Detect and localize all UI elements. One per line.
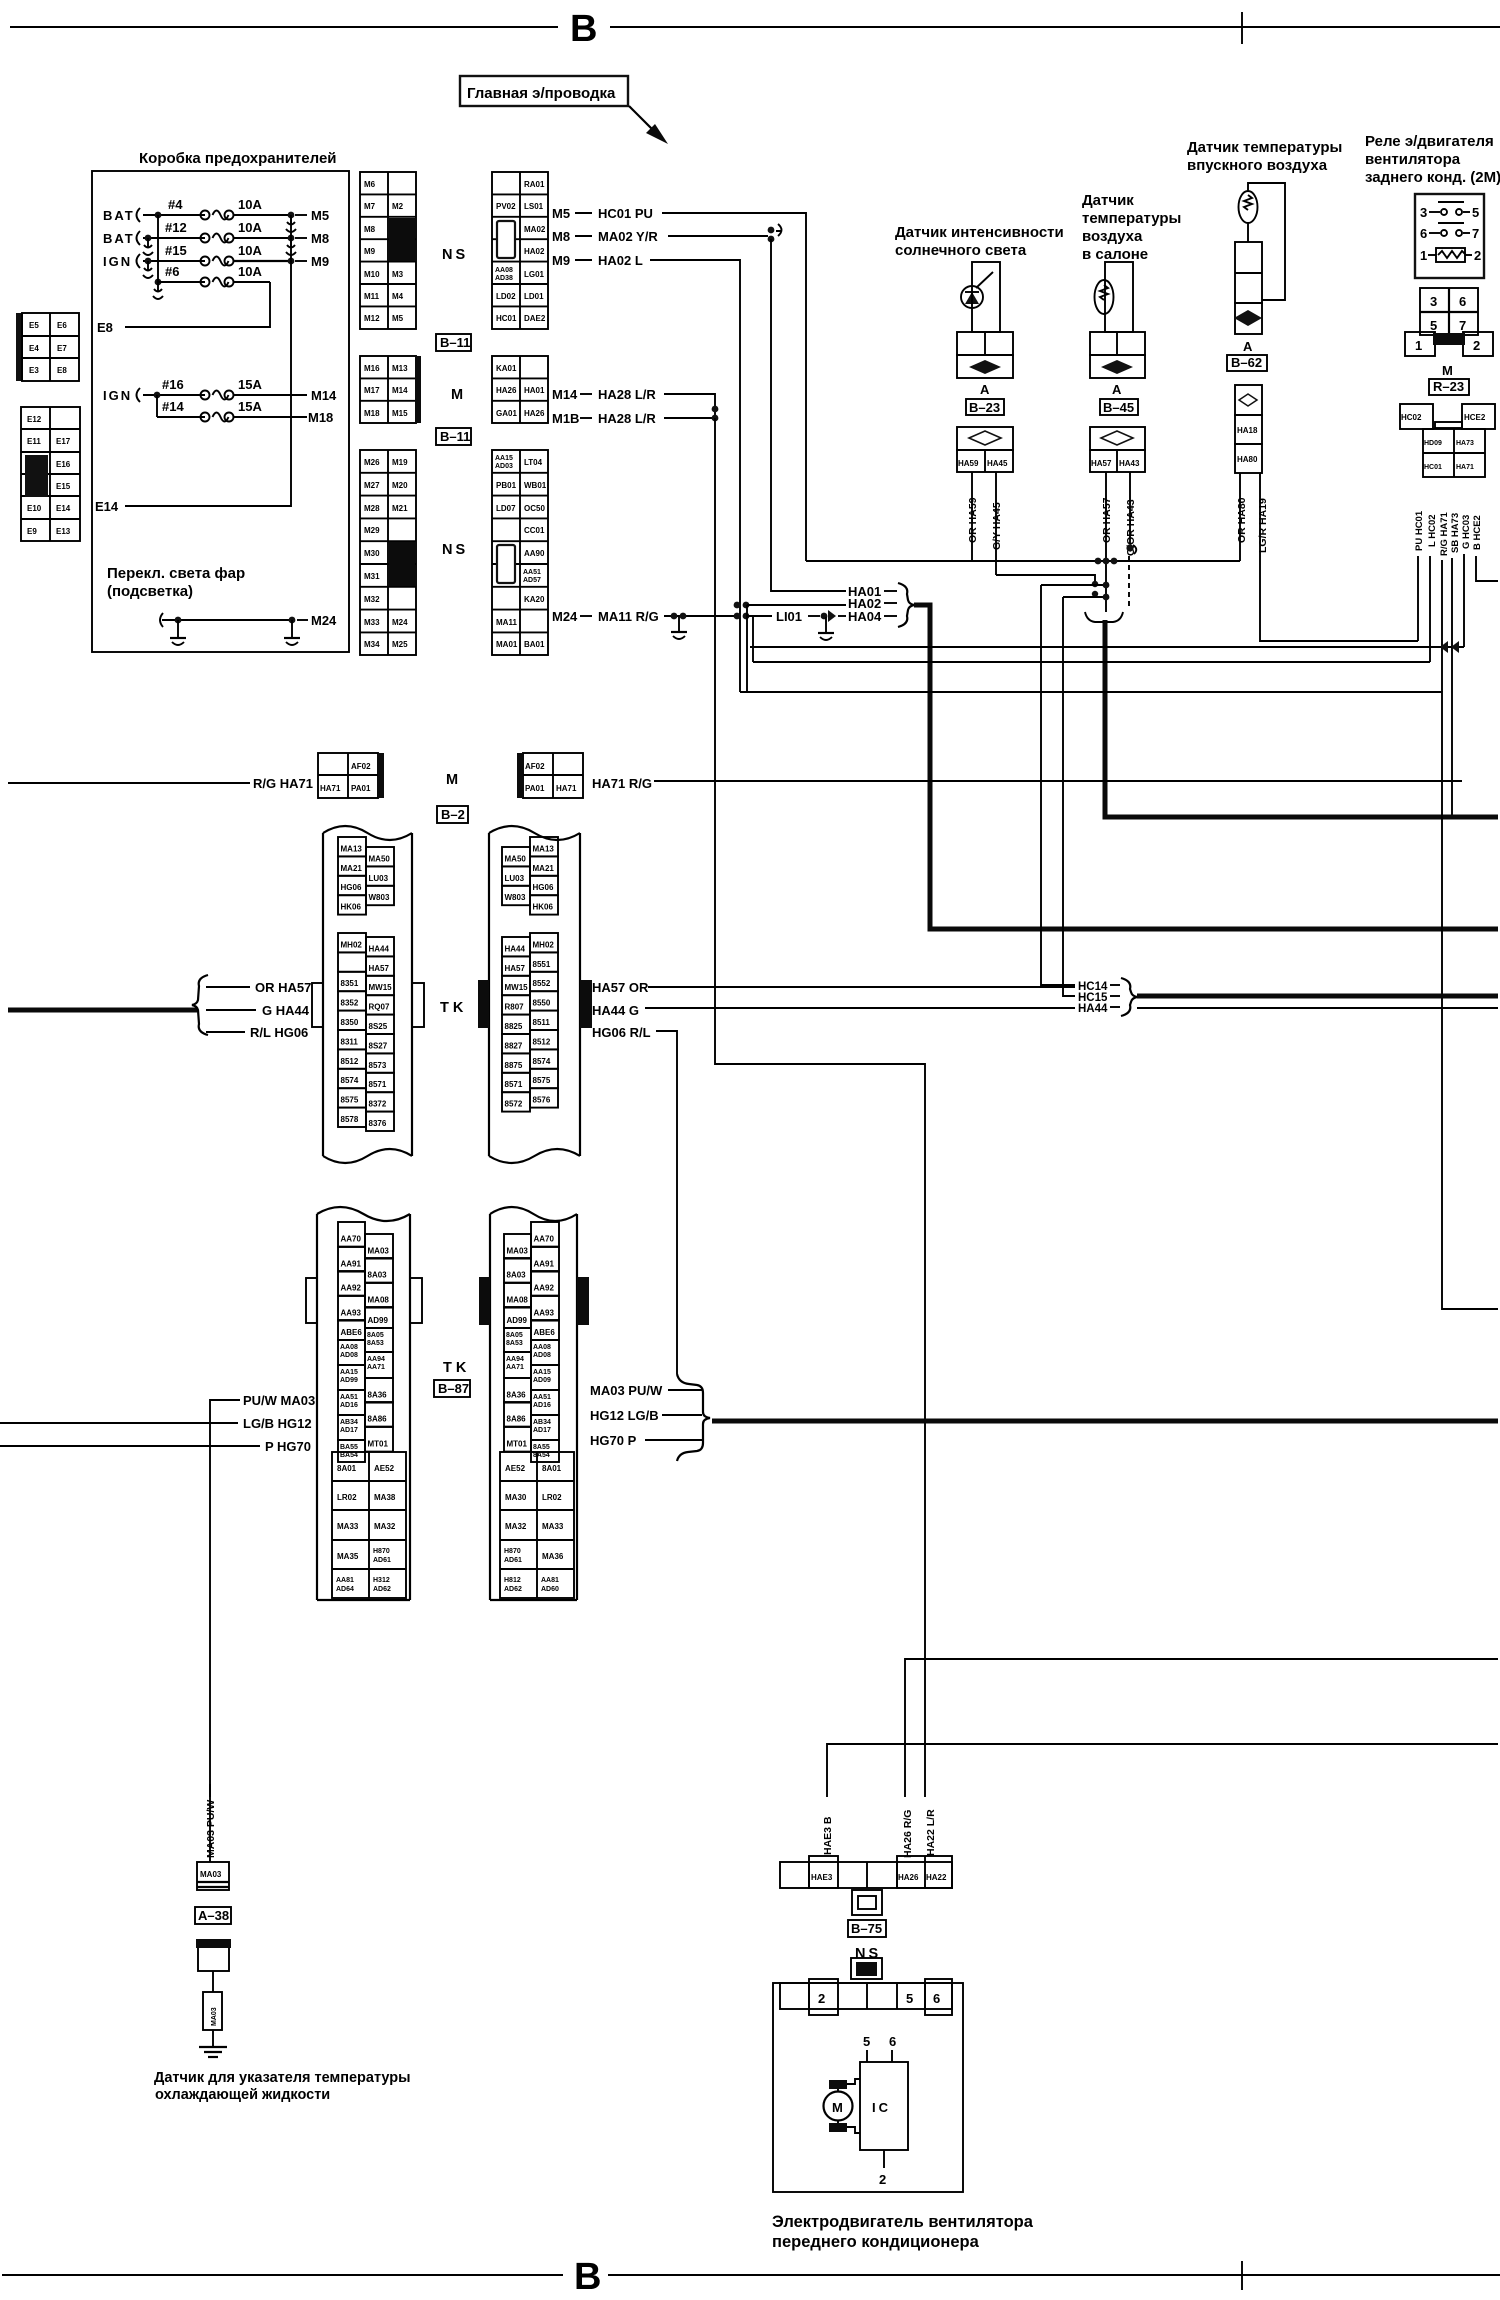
svg-text:2: 2 <box>879 2172 886 2187</box>
svg-text:E12: E12 <box>27 415 42 424</box>
relay wire label B HCE2 <box>1472 515 1483 550</box>
svg-text:8352: 8352 <box>341 999 359 1008</box>
svg-text:HA59: HA59 <box>958 459 979 468</box>
connector block M6-M12 <box>360 172 416 329</box>
svg-text:M33: M33 <box>364 618 380 627</box>
svg-text:8573: 8573 <box>369 1061 387 1070</box>
fan motor box <box>773 1983 963 2192</box>
frame top letter B <box>570 8 597 50</box>
svg-text:HA71 R/G: HA71 R/G <box>592 776 652 791</box>
thick harness wire from bundle down and right <box>1105 620 1498 817</box>
svg-text:AE52: AE52 <box>505 1464 526 1473</box>
svg-text:BA55: BA55 <box>340 1444 358 1451</box>
svg-text:R/G HA71: R/G HA71 <box>253 776 313 791</box>
cabin sensor thermistor bulb <box>1095 280 1114 314</box>
svg-text:Перекл. света фар: Перекл. света фар <box>107 565 245 582</box>
svg-text:8571: 8571 <box>369 1080 387 1089</box>
svg-text:AD16: AD16 <box>340 1402 358 1409</box>
svg-text:AA51: AA51 <box>533 1394 551 1401</box>
svg-text:AF02: AF02 <box>525 762 545 771</box>
label NS lower <box>442 542 468 558</box>
svg-text:LG01: LG01 <box>524 270 545 279</box>
relay wire label L HC02 <box>1427 514 1438 547</box>
svg-text:#16: #16 <box>162 377 184 392</box>
svg-text:AD62: AD62 <box>373 1586 391 1593</box>
svg-text:H870: H870 <box>504 1548 521 1555</box>
svg-text:MW15: MW15 <box>505 983 529 992</box>
label A (sun) <box>980 382 990 397</box>
sun sensor harness connector HA59 HA45 <box>957 427 1013 472</box>
svg-text:MA03: MA03 <box>507 1247 529 1256</box>
relay harness connector HD09/HA73 and HC01/HA71 <box>1423 429 1485 477</box>
intake air temperature sensor caption <box>1187 139 1342 174</box>
intake sensor thermistor bulb <box>1239 191 1258 223</box>
svg-text:E15: E15 <box>56 482 71 491</box>
svg-text:AA08: AA08 <box>340 1344 358 1351</box>
relay wire label SB HA73 <box>1450 513 1461 553</box>
svg-text:8551: 8551 <box>533 960 551 969</box>
svg-text:G HA44: G HA44 <box>262 1003 310 1018</box>
svg-text:AD09: AD09 <box>533 1377 551 1384</box>
svg-text:E4: E4 <box>29 344 39 353</box>
svg-text:B–11: B–11 <box>440 335 470 350</box>
svg-text:A–38: A–38 <box>198 1908 229 1923</box>
svg-text:PU HC01: PU HC01 <box>1414 510 1425 551</box>
cabin harness connector HA57 HA43 <box>1090 427 1145 472</box>
svg-text:M4: M4 <box>392 292 404 301</box>
svg-text:H812: H812 <box>504 1577 521 1584</box>
svg-text:Датчик интенсивности: Датчик интенсивности <box>895 224 1064 241</box>
svg-text:M18: M18 <box>308 410 333 425</box>
wire HAE3 B horizontal y1744 <box>827 1744 1498 1797</box>
svg-text:HAE3 B: HAE3 B <box>822 1816 834 1855</box>
svg-text:AB34: AB34 <box>533 1419 551 1426</box>
connector block RA01 column <box>492 172 548 329</box>
svg-text:M26: M26 <box>364 458 380 467</box>
bus wire HA71 R/G y781 <box>654 780 1462 782</box>
svg-text:AA93: AA93 <box>341 1309 362 1318</box>
intake harness connector HA18 HA80 <box>1235 385 1262 473</box>
svg-text:E16: E16 <box>56 460 71 469</box>
svg-text:PV02: PV02 <box>496 202 516 211</box>
svg-text:8A05: 8A05 <box>506 1332 523 1339</box>
svg-text:M34: M34 <box>364 640 380 649</box>
svg-text:MA03 PU/W: MA03 PU/W <box>205 1800 217 1858</box>
svg-text:HA43: HA43 <box>1119 459 1140 468</box>
svg-text:6: 6 <box>1459 294 1466 309</box>
svg-text:воздуха: воздуха <box>1082 228 1143 245</box>
svg-text:AA81: AA81 <box>541 1577 559 1584</box>
svg-text:вентилятора: вентилятора <box>1365 151 1461 168</box>
svg-text:8376: 8376 <box>369 1119 387 1128</box>
svg-text:1: 1 <box>1420 248 1427 263</box>
svg-text:MA50: MA50 <box>505 854 527 863</box>
svg-text:8575: 8575 <box>533 1076 551 1085</box>
svg-text:HA28 L/R: HA28 L/R <box>598 387 656 402</box>
svg-text:AD61: AD61 <box>504 1557 522 1564</box>
fuse #15 10A row IGN <box>103 243 329 278</box>
svg-text:HAE3: HAE3 <box>811 1873 833 1882</box>
svg-text:переднего кондиционера: переднего кондиционера <box>772 2233 980 2251</box>
svg-text:PB01: PB01 <box>496 481 517 490</box>
svg-text:E9: E9 <box>27 527 37 536</box>
svg-text:AA70: AA70 <box>341 1235 362 1244</box>
svg-text:6: 6 <box>1420 226 1427 241</box>
svg-text:8825: 8825 <box>505 1022 523 1031</box>
svg-text:DAE2: DAE2 <box>524 314 546 323</box>
svg-text:B: B <box>570 8 597 50</box>
svg-text:3: 3 <box>1420 205 1427 220</box>
svg-text:8576: 8576 <box>533 1096 551 1105</box>
svg-text:10A: 10A <box>238 220 262 235</box>
fuse #4 10A row BAT <box>103 197 329 232</box>
svg-text:M16: M16 <box>364 364 380 373</box>
connector grid E9-E17 <box>21 407 80 541</box>
svg-text:8A86: 8A86 <box>368 1415 388 1424</box>
svg-text:HA44: HA44 <box>1078 1003 1108 1015</box>
svg-text:#15: #15 <box>165 243 187 258</box>
svg-text:Коробка предохранителей: Коробка предохранителей <box>139 150 337 167</box>
svg-text:M24: M24 <box>392 618 408 627</box>
reference box R-23 <box>1429 379 1469 395</box>
svg-text:LD01: LD01 <box>524 292 544 301</box>
svg-text:HG12 LG/B: HG12 LG/B <box>590 1408 659 1423</box>
svg-text:M25: M25 <box>392 640 408 649</box>
left lower wire P HG70 <box>0 1439 311 1454</box>
sun intensity sensor caption <box>895 224 1064 259</box>
svg-text:OC50: OC50 <box>524 504 545 513</box>
svg-text:10A: 10A <box>238 243 262 258</box>
svg-text:8351: 8351 <box>341 979 359 988</box>
sun sensor connector A <box>957 332 1013 378</box>
svg-text:HA26 R/G: HA26 R/G <box>902 1810 914 1858</box>
intake wire OR down <box>1239 473 1241 561</box>
svg-text:AA81: AA81 <box>336 1577 354 1584</box>
svg-text:E6: E6 <box>57 321 67 330</box>
svg-text:8S25: 8S25 <box>369 1022 388 1031</box>
cabin sensor connector A <box>1090 332 1145 378</box>
fan black key box <box>851 1958 882 1979</box>
svg-text:AD60: AD60 <box>541 1586 559 1593</box>
sun sensor wires to connector <box>972 262 1000 332</box>
svg-text:H312: H312 <box>373 1577 390 1584</box>
svg-text:8A01: 8A01 <box>337 1464 357 1473</box>
relay wire L down <box>1429 556 1431 662</box>
AF02 connector left <box>318 753 384 798</box>
svg-text:#12: #12 <box>165 220 187 235</box>
svg-text:W803: W803 <box>369 893 390 902</box>
svg-text:5: 5 <box>906 1991 913 2006</box>
svg-text:M30: M30 <box>364 549 380 558</box>
svg-text:LD02: LD02 <box>496 292 516 301</box>
svg-text:L HC02: L HC02 <box>1427 514 1438 547</box>
fan connector strip <box>780 1856 952 1888</box>
reference box B-23 <box>966 399 1004 415</box>
svg-text:7: 7 <box>1459 318 1466 333</box>
svg-text:M18: M18 <box>364 409 380 418</box>
svg-text:LR02: LR02 <box>542 1493 562 1502</box>
frame bottom rule left segment <box>2 2274 563 2276</box>
svg-text:8A53: 8A53 <box>367 1340 384 1347</box>
svg-text:MA03: MA03 <box>200 1870 222 1879</box>
svg-text:M2: M2 <box>392 202 404 211</box>
svg-text:BAT: BAT <box>103 208 135 223</box>
svg-text:LU03: LU03 <box>505 874 525 883</box>
svg-text:2: 2 <box>1474 248 1481 263</box>
connector block AA15 column <box>492 450 548 655</box>
svg-text:MA02: MA02 <box>524 225 546 234</box>
svg-text:MA30: MA30 <box>505 1493 527 1502</box>
svg-text:MA03: MA03 <box>368 1247 390 1256</box>
svg-text:HA73: HA73 <box>1456 440 1474 447</box>
svg-text:8S27: 8S27 <box>369 1041 388 1050</box>
wire from fuse 6 down to E8 <box>125 282 270 327</box>
wire M9 to HA02 L <box>552 253 740 692</box>
cabin sensor wires <box>1105 262 1133 332</box>
relay wire R/G down <box>1441 560 1443 692</box>
svg-text:AA08: AA08 <box>533 1344 551 1351</box>
reference box B-45 <box>1100 399 1138 415</box>
svg-text:PU/W MA03: PU/W MA03 <box>243 1393 315 1408</box>
svg-text:8A53: 8A53 <box>506 1340 523 1347</box>
svg-text:MT01: MT01 <box>507 1440 528 1449</box>
reference box A-38 <box>195 1907 231 1924</box>
wire stub x753 <box>752 616 754 662</box>
svg-text:AA70: AA70 <box>534 1235 555 1244</box>
intake sensor loop wire <box>1248 183 1285 300</box>
wire R/G HA71 into left AF02 <box>8 776 313 791</box>
svg-text:OR HA80: OR HA80 <box>1236 497 1248 543</box>
relay wire PU down <box>1417 556 1419 641</box>
coolant sensor caption <box>154 2070 411 2103</box>
svg-text:8A05: 8A05 <box>367 1332 384 1339</box>
svg-text:AA15: AA15 <box>495 455 513 462</box>
svg-text:HK06: HK06 <box>533 903 554 912</box>
svg-text:температуры: температуры <box>1082 210 1181 227</box>
bus wire y692 with corner down at 1442 <box>740 692 1498 1309</box>
thick combined wire y998 <box>1137 994 1498 999</box>
svg-text:1: 1 <box>1415 338 1422 353</box>
svg-text:M: M <box>446 772 458 788</box>
fan wire label HA22 L/R <box>925 1809 937 1856</box>
svg-text:M1B: M1B <box>552 411 579 426</box>
svg-text:M28: M28 <box>364 504 380 513</box>
svg-text:B–23: B–23 <box>969 400 1000 415</box>
label TK lower <box>443 1360 470 1376</box>
svg-text:#14: #14 <box>162 399 184 414</box>
svg-text:M17: M17 <box>364 386 380 395</box>
fan motor IC block <box>860 2062 908 2150</box>
svg-text:MA33: MA33 <box>337 1522 359 1531</box>
svg-text:M11: M11 <box>364 292 380 301</box>
svg-text:M21: M21 <box>392 504 408 513</box>
svg-text:AD62: AD62 <box>504 1586 522 1593</box>
svg-text:HA04: HA04 <box>848 609 882 624</box>
svg-text:B–11: B–11 <box>440 429 470 444</box>
relay wire label PU HC01 <box>1414 510 1425 551</box>
svg-text:AA92: AA92 <box>534 1284 555 1293</box>
svg-text:HC01 PU: HC01 PU <box>598 206 653 221</box>
svg-text:охлаждающей жидкости: охлаждающей жидкости <box>155 2087 330 2103</box>
svg-text:AA91: AA91 <box>534 1260 555 1269</box>
svg-text:M32: M32 <box>364 595 380 604</box>
wire color label G/Y HA45 <box>991 502 1003 550</box>
wire M18 to HA28 L/R <box>552 406 718 426</box>
svg-text:M10: M10 <box>364 270 380 279</box>
svg-text:8512: 8512 <box>533 1037 551 1046</box>
relay wire SB down <box>1451 558 1453 817</box>
left lower wire PU/W MA03 corner <box>210 1393 315 1797</box>
svg-text:5: 5 <box>1472 205 1479 220</box>
svg-text:8A01: 8A01 <box>542 1464 562 1473</box>
svg-text:HC01: HC01 <box>496 314 517 323</box>
reference box B-87 <box>434 1380 470 1397</box>
relay R-23 box with contacts <box>1415 194 1484 278</box>
node E14 label <box>95 499 119 514</box>
svg-text:M14: M14 <box>392 386 408 395</box>
svg-text:A: A <box>1243 339 1253 354</box>
relay wire G down <box>1463 554 1465 647</box>
cabin air temperature sensor caption <box>1082 192 1181 263</box>
svg-text:BAT: BAT <box>103 231 135 246</box>
wire HC15 tap y597 <box>1063 594 1109 601</box>
label A (cabin) <box>1112 382 1122 397</box>
svg-text:8578: 8578 <box>341 1115 359 1124</box>
svg-text:HA45: HA45 <box>987 459 1008 468</box>
svg-text:HG06: HG06 <box>341 883 362 892</box>
svg-text:WB01: WB01 <box>524 481 547 490</box>
svg-text:M12: M12 <box>364 314 380 323</box>
svg-text:A: A <box>980 382 990 397</box>
svg-text:AA93: AA93 <box>534 1309 555 1318</box>
bus wire y647 <box>750 641 1464 653</box>
svg-text:R807: R807 <box>505 1003 525 1012</box>
svg-text:MA50: MA50 <box>369 854 391 863</box>
svg-text:E5: E5 <box>29 321 39 330</box>
svg-text:H870: H870 <box>373 1548 390 1555</box>
svg-text:E8: E8 <box>97 320 113 335</box>
svg-text:8827: 8827 <box>505 1041 523 1050</box>
svg-text:Главная э/проводка: Главная э/проводка <box>467 85 616 102</box>
wire M9 junction vertical down to E14 <box>125 215 291 506</box>
svg-text:MH02: MH02 <box>341 940 363 949</box>
fan motor pin strip <box>780 1979 952 2015</box>
frame bottom tick mark <box>1241 2261 1243 2290</box>
relay wire label G HC03 <box>1461 515 1472 549</box>
svg-text:заднего конд. (2M): заднего конд. (2M) <box>1365 169 1500 186</box>
svg-text:солнечного света: солнечного света <box>895 242 1027 259</box>
svg-text:ABE6: ABE6 <box>534 1328 556 1337</box>
fuse #6 10A row <box>153 264 270 299</box>
svg-text:HG70 P: HG70 P <box>590 1433 637 1448</box>
fan wire label HA26 R/G <box>902 1810 914 1858</box>
svg-text:AA71: AA71 <box>367 1364 385 1371</box>
svg-text:R/G HA71: R/G HA71 <box>1439 511 1450 556</box>
svg-text:G/Y HA45: G/Y HA45 <box>991 502 1003 550</box>
svg-text:8574: 8574 <box>341 1076 359 1085</box>
svg-text:HA71: HA71 <box>320 784 341 793</box>
svg-text:NS: NS <box>855 1946 881 1962</box>
svg-text:10A: 10A <box>238 264 262 279</box>
connector block KA01 column <box>492 356 548 423</box>
relay harness connector HC02/HCE2 <box>1400 404 1495 429</box>
svg-text:E14: E14 <box>95 499 119 514</box>
connector grid E5-E8 <box>16 313 79 381</box>
svg-text:IGN: IGN <box>103 254 132 269</box>
reference box B-2 <box>437 806 468 823</box>
svg-text:MA21: MA21 <box>341 864 363 873</box>
fan motor caption <box>772 2213 1034 2251</box>
svg-text:AB34: AB34 <box>340 1419 358 1426</box>
svg-text:Реле э/двигателя: Реле э/двигателя <box>1365 133 1494 150</box>
svg-text:E17: E17 <box>56 437 71 446</box>
svg-text:8A55: 8A55 <box>533 1444 550 1451</box>
svg-text:MA03: MA03 <box>211 2007 218 2026</box>
svg-text:5: 5 <box>863 2034 870 2049</box>
wire HC15 vertical <box>1063 597 1075 996</box>
svg-text:M: M <box>451 387 463 403</box>
svg-text:8A86: 8A86 <box>507 1415 527 1424</box>
svg-text:Электродвигатель вентилятора: Электродвигатель вентилятора <box>772 2213 1034 2231</box>
svg-text:HA26: HA26 <box>496 386 517 395</box>
svg-text:HA80: HA80 <box>1237 455 1258 464</box>
svg-text:5: 5 <box>1430 318 1437 333</box>
svg-text:TK: TK <box>440 1000 467 1016</box>
fuse #12 10A row BAT <box>103 220 329 255</box>
svg-text:M9: M9 <box>552 253 570 268</box>
svg-text:M31: M31 <box>364 572 380 581</box>
thin bus y1007 HA44 G <box>645 1007 1498 1009</box>
svg-text:AD03: AD03 <box>495 463 513 470</box>
svg-text:HA44: HA44 <box>369 944 390 953</box>
svg-text:MA36: MA36 <box>542 1552 564 1561</box>
svg-text:A: A <box>1112 382 1122 397</box>
sun sensor photodiode symbol <box>961 272 993 308</box>
svg-text:M29: M29 <box>364 526 380 535</box>
svg-text:LS01: LS01 <box>524 202 544 211</box>
frame top rule right segment <box>610 26 1500 28</box>
svg-text:HCE2: HCE2 <box>1464 413 1486 422</box>
svg-text:AD17: AD17 <box>340 1427 358 1434</box>
svg-text:M9: M9 <box>311 254 329 269</box>
svg-text:M9: M9 <box>364 247 376 256</box>
relay wire B down <box>1476 556 1498 581</box>
svg-text:AA92: AA92 <box>341 1284 362 1293</box>
svg-text:MA38: MA38 <box>374 1493 396 1502</box>
svg-text:M3: M3 <box>392 270 404 279</box>
svg-text:HA57: HA57 <box>1091 459 1112 468</box>
node E8 label <box>97 320 113 335</box>
svg-text:AD57: AD57 <box>523 577 541 584</box>
svg-text:R–23: R–23 <box>1433 379 1464 394</box>
label M between AF02 <box>446 772 458 788</box>
thick harness wire from HA brace <box>914 605 1498 929</box>
left thick feeder G HA44 <box>8 1008 197 1013</box>
svg-text:E3: E3 <box>29 366 39 375</box>
svg-text:Датчик для указателя температу: Датчик для указателя температуры <box>154 2070 411 2086</box>
thin bus y987 HA57 OR <box>648 986 1075 988</box>
svg-text:OR HA57: OR HA57 <box>1101 497 1113 543</box>
svg-text:MA33: MA33 <box>542 1522 564 1531</box>
svg-text:HA22: HA22 <box>926 1873 947 1882</box>
svg-text:LG/R HA19: LG/R HA19 <box>1257 498 1269 553</box>
wire color label LG/R HA19 <box>1257 498 1269 553</box>
svg-text:RQ07: RQ07 <box>369 1003 390 1012</box>
svg-text:E14: E14 <box>56 504 71 513</box>
svg-text:3: 3 <box>1430 294 1437 309</box>
svg-text:MA11: MA11 <box>496 618 517 627</box>
svg-text:KA20: KA20 <box>524 595 545 604</box>
